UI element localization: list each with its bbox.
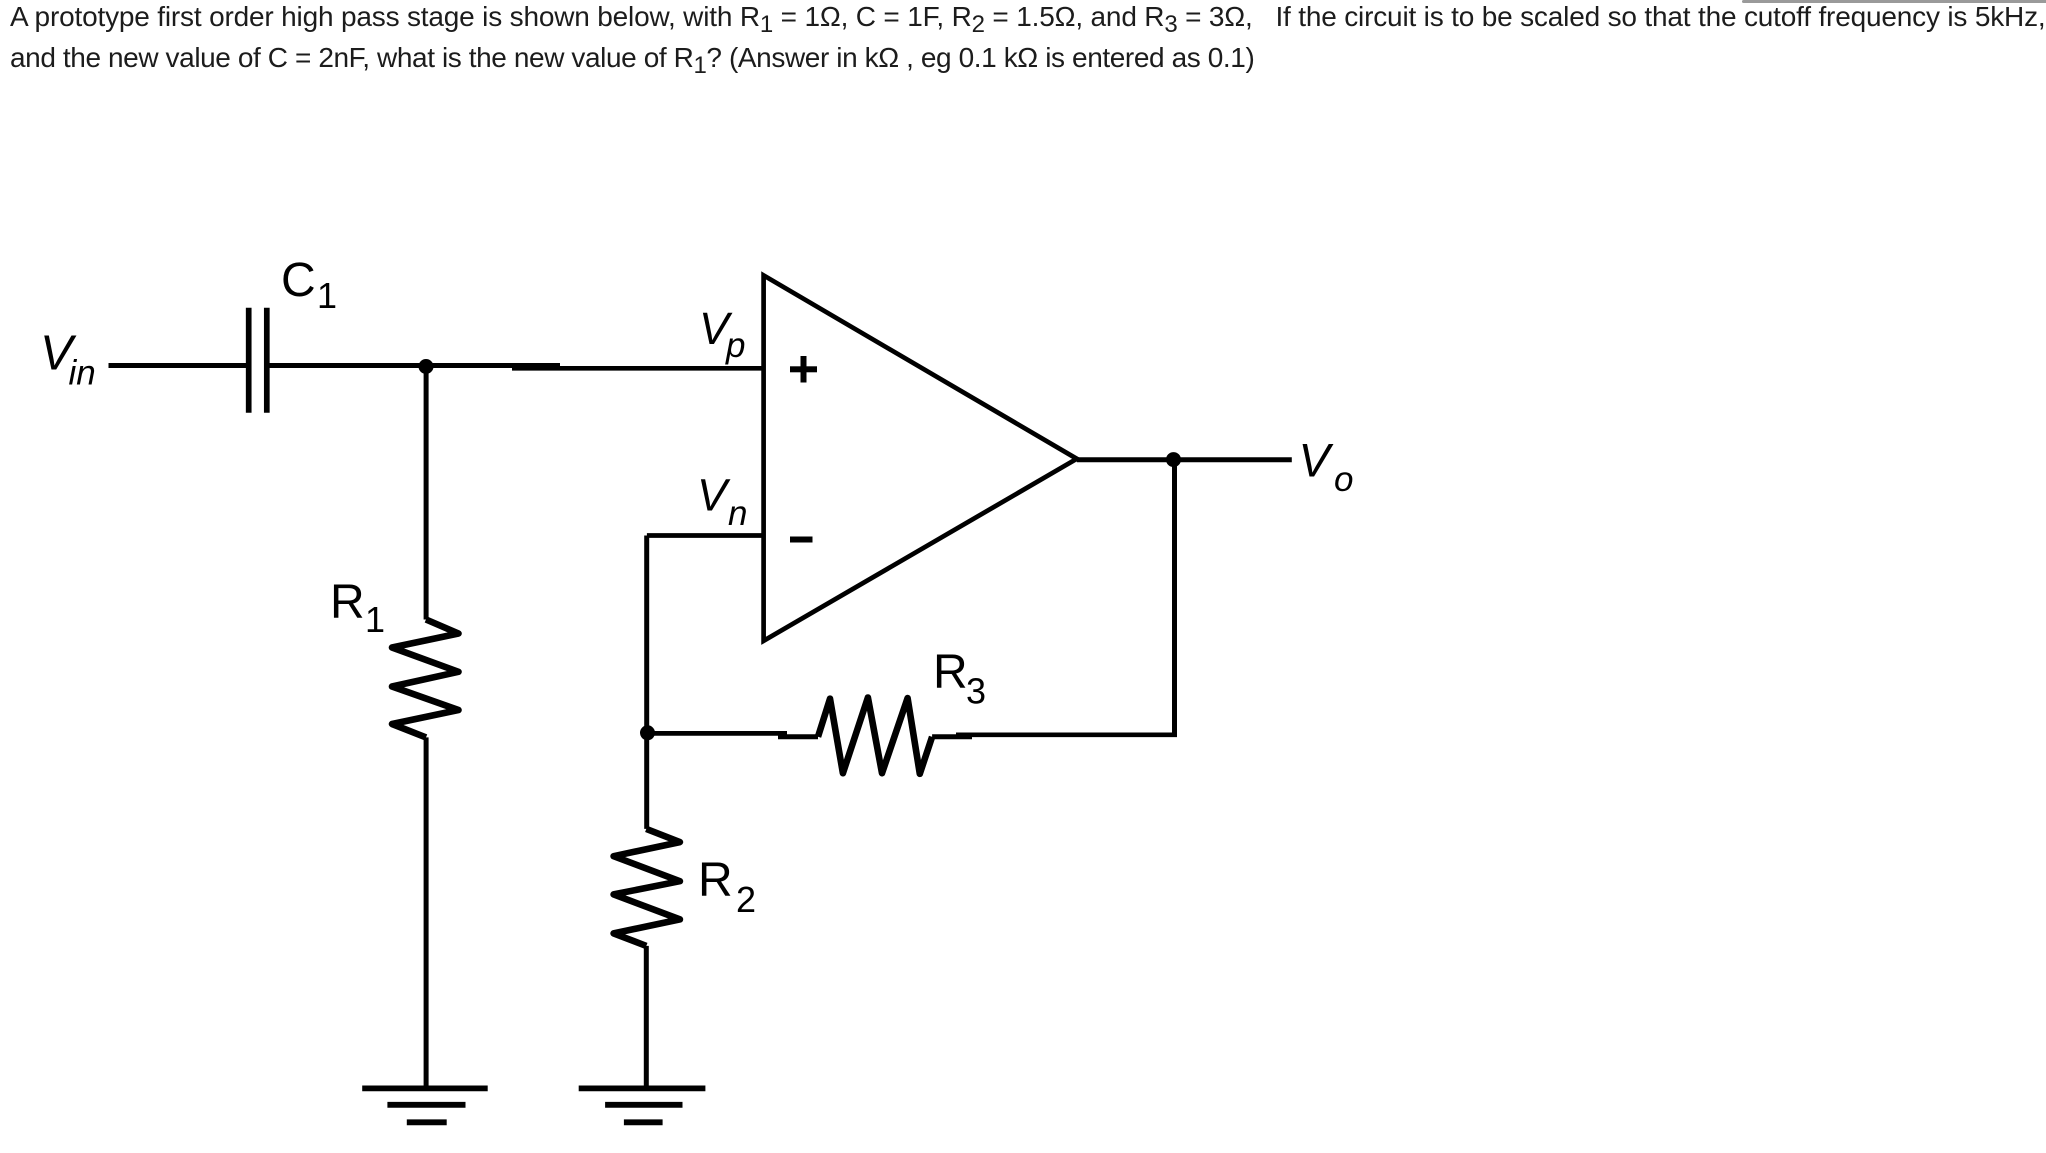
svg-text:V: V	[1299, 433, 1334, 486]
wire node A down to R1	[424, 367, 429, 620]
op-amp - input symbol	[790, 537, 813, 543]
resistor R2 zigzag	[614, 829, 680, 946]
ground under R2	[579, 1086, 706, 1092]
node Vp label	[699, 303, 745, 365]
resistor R1 zigzag	[392, 620, 459, 738]
svg-text:o: o	[1334, 460, 1353, 499]
wire node B down to R2	[644, 733, 649, 829]
wire R3 left lead	[778, 734, 818, 739]
svg-text:in: in	[69, 354, 96, 393]
wire feedback horizontal to R3	[956, 732, 1177, 737]
svg-text:R: R	[933, 646, 968, 699]
node Vn label	[697, 470, 747, 533]
question text	[10, 0, 2046, 78]
svg-text:1: 1	[365, 599, 385, 640]
resistor R1 label	[330, 576, 385, 640]
wire R3 right lead	[932, 734, 972, 739]
resistor R3 label	[933, 646, 986, 712]
wire op-amp output to Vo	[1077, 457, 1292, 462]
output node junction dot	[1166, 452, 1181, 467]
node Vin label	[40, 327, 96, 393]
wire Vn down to node B	[644, 536, 649, 733]
wire node A to op-amp + input (Vp)	[512, 366, 764, 371]
capacitor C1 plates	[246, 308, 252, 413]
resistor R3 zigzag	[818, 698, 932, 774]
node Vo label	[1299, 433, 1354, 499]
op-amp + input symbol	[790, 356, 817, 383]
svg-text:R: R	[330, 576, 365, 629]
svg-text:2: 2	[736, 879, 756, 920]
svg-text:1: 1	[317, 275, 337, 316]
wire Vn input to op-amp - input	[647, 533, 764, 538]
svg-text:3: 3	[966, 671, 986, 712]
wire Vin to capacitor C1	[109, 363, 247, 368]
wire output node down to feedback	[1172, 460, 1177, 735]
svg-text:p: p	[725, 326, 745, 365]
ground under R1	[362, 1086, 488, 1092]
wire capacitor to node A	[270, 363, 561, 368]
svg-text:V: V	[697, 470, 731, 521]
svg-text:C: C	[281, 254, 316, 307]
node B junction dot	[640, 725, 655, 740]
wire R2 to ground	[644, 946, 649, 1088]
wire node B to R3	[648, 731, 788, 736]
resistor R2 label	[698, 854, 756, 920]
svg-text:R: R	[698, 854, 733, 907]
op-amp U1 triangle	[764, 275, 1077, 640]
capacitor C1 label	[281, 254, 337, 316]
node A junction dot	[419, 359, 434, 374]
top-right partial gray rule	[1742, 0, 2046, 3]
svg-text:n: n	[728, 494, 747, 533]
wire R1 to ground	[424, 737, 429, 1088]
